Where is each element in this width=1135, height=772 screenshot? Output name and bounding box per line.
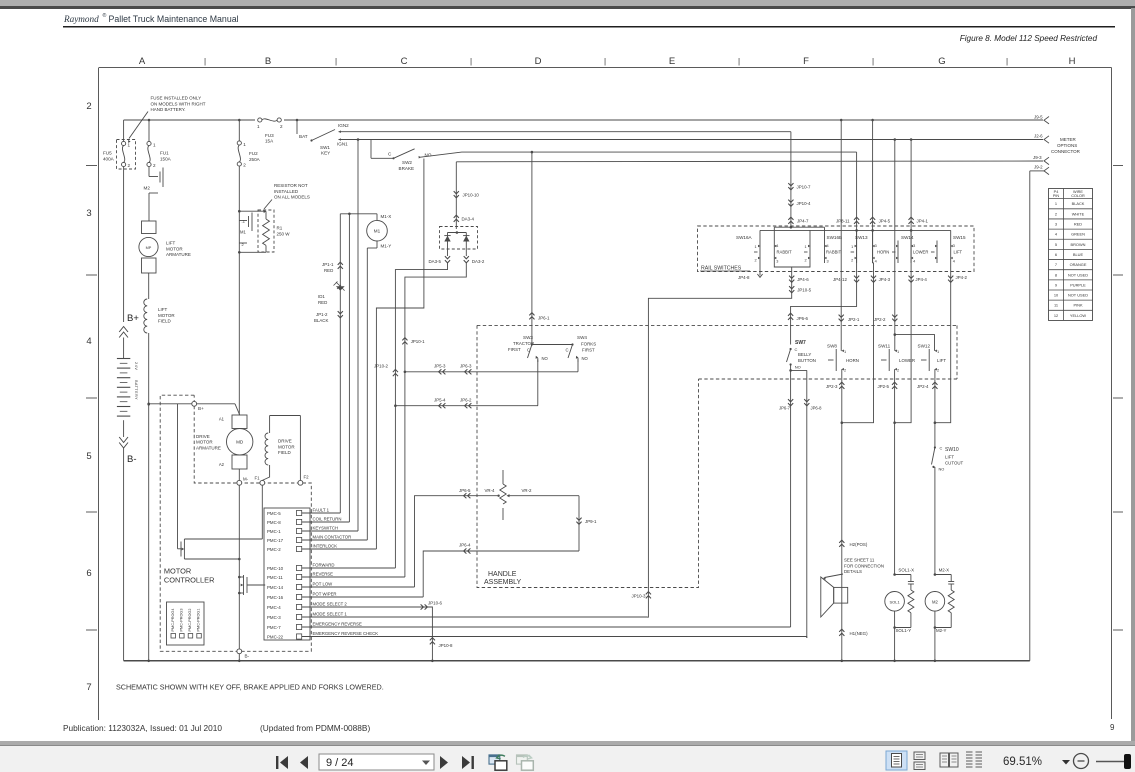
svg-text:WHITE: WHITE	[1072, 211, 1085, 216]
svg-text:TRACTOR: TRACTOR	[513, 341, 534, 346]
svg-text:JP10-4: JP10-4	[797, 201, 811, 206]
svg-text:DETAILS: DETAILS	[844, 569, 862, 574]
contact M1 main tips	[239, 213, 252, 248]
svg-text:PMC-PROG3: PMC-PROG3	[179, 609, 183, 632]
wire: brake NO to bus	[419, 151, 856, 158]
svg-text:11: 11	[1054, 303, 1058, 308]
wire: bottom negative bus	[124, 660, 1030, 662]
svg-text:12: 12	[1054, 313, 1058, 318]
svg-text:2: 2	[937, 368, 939, 373]
svg-text:PINK: PINK	[1073, 303, 1082, 308]
svg-text:6: 6	[86, 568, 91, 579]
svg-text:JP6-8: JP6-8	[811, 406, 823, 411]
svg-text:LIFT: LIFT	[954, 250, 963, 255]
svg-text:1: 1	[897, 349, 899, 354]
svg-text:7: 7	[86, 682, 91, 693]
svg-text:M2: M2	[144, 186, 151, 191]
svg-text:JP10-5: JP10-5	[797, 288, 811, 293]
switch SW10 lift cutout	[932, 446, 964, 472]
svg-text:SW8: SW8	[827, 344, 837, 349]
wire: SW7 out pair	[779, 369, 822, 638]
svg-text:RED: RED	[324, 268, 333, 273]
svg-text:JP4-2: JP4-2	[956, 275, 968, 280]
svg-text:A1: A1	[219, 417, 225, 422]
wire: SW4 NO tie	[577, 360, 579, 372]
svg-text:HANDLE: HANDLE	[488, 571, 517, 578]
switch SW7 belly button	[787, 340, 816, 370]
connector J9-5	[1034, 114, 1049, 124]
svg-text:MOTOR: MOTOR	[196, 440, 213, 445]
header title	[63, 12, 239, 24]
node B+	[119, 313, 139, 338]
svg-text:BLUE: BLUE	[1073, 252, 1084, 257]
svg-text:JP2-5: JP2-5	[878, 384, 890, 389]
svg-text:NO: NO	[582, 356, 589, 361]
svg-text:DA3-2: DA3-2	[472, 259, 485, 264]
svg-text:JP10-7: JP10-7	[797, 185, 811, 190]
transistor Q1	[178, 404, 263, 561]
svg-text:E: E	[669, 56, 675, 67]
connector J9-3	[1033, 155, 1049, 165]
svg-text:M2-Y: M2-Y	[936, 628, 947, 633]
svg-text:|: |	[604, 57, 606, 66]
svg-text:5: 5	[1055, 242, 1057, 247]
switch SW12 lift	[918, 344, 947, 373]
svg-text:FU3: FU3	[265, 133, 274, 138]
svg-text:D: D	[535, 56, 542, 67]
wire: wiper to JP9-1	[576, 496, 597, 551]
contact M2 tips	[144, 167, 164, 221]
note fuse installed only	[128, 96, 206, 144]
svg-text:PMC-4: PMC-4	[267, 605, 281, 610]
svg-text:MOTOR: MOTOR	[158, 313, 175, 318]
svg-text:2: 2	[755, 259, 757, 263]
connector J2-6	[1034, 134, 1049, 144]
svg-text:69.51%: 69.51%	[1003, 756, 1042, 768]
svg-text:|: |	[1006, 57, 1008, 66]
svg-text:YELLOW: YELLOW	[1070, 313, 1087, 318]
svg-text:Publication: 1123032A, Issued:: Publication: 1123032A, Issued: 01 Jul 20…	[63, 723, 222, 733]
svg-text:9 / 24: 9 / 24	[326, 757, 354, 769]
svg-text:SOL1: SOL1	[889, 599, 900, 604]
svg-text:2: 2	[153, 163, 156, 168]
svg-text:ASSEMBLY: ASSEMBLY	[484, 579, 522, 586]
svg-text:FORKS: FORKS	[581, 342, 596, 347]
svg-text:G: G	[938, 56, 945, 67]
svg-text:SCHEMATIC SHOWN WITH KEY OFF,: SCHEMATIC SHOWN WITH KEY OFF, BRAKE APPL…	[116, 683, 384, 692]
svg-text:JP4-5: JP4-5	[879, 219, 891, 224]
svg-text:JP2-3: JP2-3	[826, 384, 838, 389]
svg-text:6: 6	[1055, 252, 1057, 257]
wire: coil return	[302, 521, 350, 523]
svg-text:JP5-3: JP5-3	[434, 364, 446, 369]
svg-text:KEY: KEY	[321, 151, 330, 156]
svg-text:R1: R1	[277, 226, 283, 231]
svg-text:JP4-8: JP4-8	[738, 275, 750, 280]
svg-text:JP6-6: JP6-6	[797, 316, 809, 321]
svg-text:JP5-4: JP5-4	[434, 397, 446, 402]
wire: brake line down JP8-11	[836, 152, 859, 263]
wire: SOL1 to bus	[893, 611, 896, 662]
wire: IGN2 down to rail	[788, 132, 811, 228]
svg-text:4: 4	[827, 244, 829, 248]
svg-text:B+: B+	[127, 313, 139, 324]
svg-text:1: 1	[243, 142, 246, 147]
header rule	[63, 26, 1115, 28]
svg-text:B: B	[265, 56, 271, 67]
svg-text:Pallet Truck Maintenance Manua: Pallet Truck Maintenance Manual	[109, 14, 239, 24]
wire: keyswitch sense	[357, 138, 360, 531]
wire: DA3 feed from J9-3 line	[454, 162, 480, 229]
svg-text:JP4-6: JP4-6	[797, 277, 809, 282]
svg-text:Raymond: Raymond	[63, 14, 99, 24]
svg-text:JP1-1: JP1-1	[322, 262, 334, 267]
svg-text:JP6-3: JP6-3	[460, 364, 472, 369]
svg-text:C: C	[401, 56, 408, 67]
svg-text:3: 3	[875, 244, 877, 248]
node B-	[119, 437, 136, 465]
svg-text:9: 9	[1055, 282, 1057, 287]
svg-text:JP4-1: JP4-1	[917, 219, 929, 224]
svg-text:PMC-22: PMC-22	[267, 635, 284, 640]
wire: lower feed JP2-2	[874, 140, 897, 351]
svg-text:JP6-7: JP6-7	[779, 406, 791, 411]
svg-text:VR-4: VR-4	[485, 488, 496, 493]
svg-text:4: 4	[875, 260, 877, 264]
svg-text:2: 2	[243, 163, 246, 168]
svg-text:-1: -1	[242, 219, 245, 224]
svg-text:METER: METER	[1060, 137, 1077, 142]
switch SW16A rabbit	[736, 235, 792, 264]
fuse FU1	[147, 120, 172, 168]
svg-text:2: 2	[86, 101, 91, 112]
svg-text:PMC-PROG2: PMC-PROG2	[188, 609, 192, 632]
svg-text:JP10-6: JP10-6	[428, 601, 442, 606]
svg-text:A2: A2	[219, 462, 225, 467]
svg-text:BROWN: BROWN	[1071, 242, 1086, 247]
svg-text:EMERGENCY REVERSE CHECK: EMERGENCY REVERSE CHECK	[313, 631, 379, 636]
led ID1 branch	[314, 214, 345, 513]
wire: SW12 to SW10	[917, 369, 938, 446]
wire: lift feed branch	[895, 335, 935, 351]
svg-text:1: 1	[1055, 201, 1057, 206]
svg-text:J9-2: J9-2	[1034, 164, 1043, 169]
wire: battery negative rail	[123, 448, 125, 661]
svg-text:SOL1-Y: SOL1-Y	[896, 628, 912, 633]
svg-text:|: |	[872, 57, 874, 66]
potentiometer VR	[485, 470, 580, 520]
svg-text:DRIVE: DRIVE	[196, 434, 210, 439]
wire: mode select 2	[302, 601, 453, 663]
svg-text:JP10-8: JP10-8	[439, 643, 453, 648]
svg-text:SW7: SW7	[795, 340, 806, 346]
svg-text:3: 3	[827, 260, 829, 264]
switch SW4 forks first	[532, 335, 596, 362]
svg-text:M-: M-	[243, 477, 249, 482]
wire: horn feed JP2-1	[839, 120, 860, 351]
label handle assembly	[484, 571, 522, 586]
wire: reverse	[302, 576, 405, 578]
svg-text:KEYSWITCH: KEYSWITCH	[313, 526, 339, 531]
svg-text:FU5: FU5	[103, 151, 112, 156]
svg-text:DA3-5: DA3-5	[429, 259, 442, 264]
connector J9-2	[1030, 164, 1049, 174]
svg-text:PMC-10: PMC-10	[267, 566, 284, 571]
svg-text:H: H	[1069, 56, 1076, 67]
wire: right return vertical	[1029, 171, 1031, 661]
wire: DA3-2 to reverse line	[405, 263, 466, 577]
svg-text:J9-3: J9-3	[1033, 155, 1042, 160]
svg-text:PMC-2: PMC-2	[267, 547, 281, 552]
wire: main contactor drive	[366, 248, 368, 540]
inductor drive motor field	[262, 416, 300, 481]
switch SW11 lower	[878, 344, 915, 373]
svg-text:M2: M2	[932, 599, 938, 604]
svg-text:2: 2	[805, 259, 807, 263]
svg-text:BRAKE: BRAKE	[399, 166, 415, 171]
switch SW13 horn	[851, 235, 890, 264]
svg-text:DRIVE: DRIVE	[278, 439, 292, 444]
svg-text:JP10-2: JP10-2	[374, 364, 388, 369]
svg-text:F: F	[803, 56, 809, 67]
wire: JP6-4 pot wiper line	[423, 543, 579, 598]
switch SW8 horn	[827, 344, 859, 373]
svg-text:2: 2	[844, 368, 846, 373]
svg-text:C: C	[566, 348, 569, 353]
label meter options connector	[1051, 137, 1081, 154]
svg-text:4: 4	[913, 260, 915, 264]
wire: SW8 to horn circuit	[826, 369, 844, 424]
svg-text:NO: NO	[542, 356, 549, 361]
svg-text:PMC-14: PMC-14	[267, 585, 284, 590]
wire: SW14 lower out	[895, 263, 928, 423]
svg-text:NOT USED: NOT USED	[1068, 272, 1088, 277]
svg-text:150A: 150A	[160, 156, 172, 161]
svg-text:F1: F1	[255, 476, 261, 481]
svg-text:LOWER: LOWER	[899, 358, 915, 363]
svg-text:1: 1	[257, 124, 260, 129]
wire: JP5-3 speed line	[404, 364, 578, 375]
wire: forward	[302, 567, 396, 569]
connector block PMC	[264, 508, 378, 640]
node F2 controller	[298, 475, 309, 486]
node B- controller	[237, 649, 250, 659]
solenoid SOL1	[885, 568, 914, 634]
svg-text:8: 8	[1055, 272, 1057, 277]
svg-text:MODE SELECT 1: MODE SELECT 1	[313, 612, 348, 617]
wire: mode select 1	[302, 616, 648, 618]
wire: M- lead	[238, 469, 241, 662]
svg-text:SW11: SW11	[878, 344, 891, 349]
svg-text:NO: NO	[939, 467, 945, 472]
wire: battery positive top bus	[124, 119, 1043, 122]
transistor Q2	[238, 575, 265, 595]
wire: bus down JP4-5	[870, 120, 891, 263]
connector DA3-5	[429, 256, 451, 264]
svg-text:RABBIT: RABBIT	[777, 250, 793, 255]
svg-text:3: 3	[953, 244, 955, 248]
wire: SW15 lift out	[935, 263, 968, 423]
wire: FU2 to contact	[238, 166, 241, 415]
wire: main contactor	[302, 539, 368, 541]
svg-text:JP2-4: JP2-4	[917, 384, 929, 389]
svg-text:DA3-4: DA3-4	[462, 217, 475, 222]
svg-text:M1-Y: M1-Y	[381, 244, 392, 249]
schematic border frame	[99, 68, 1112, 721]
wire: DA3-5 to forward line	[395, 263, 447, 568]
svg-text:3: 3	[913, 244, 915, 248]
svg-text:CONTROLLER: CONTROLLER	[164, 576, 215, 585]
box PMC-PROG	[167, 602, 205, 645]
svg-text:LIFT: LIFT	[158, 307, 168, 312]
wire: interlock	[302, 548, 377, 550]
svg-text:BLACK: BLACK	[314, 318, 328, 323]
svg-text:ARMATURE: ARMATURE	[196, 445, 221, 450]
wire: pot wiper	[302, 596, 424, 598]
svg-text:INTERLOCK: INTERLOCK	[313, 544, 338, 549]
svg-text:VR-2: VR-2	[522, 488, 533, 493]
switch SW3 tractor first	[508, 335, 549, 362]
svg-text:POT WIPER: POT WIPER	[313, 592, 337, 597]
svg-text:RABBIT: RABBIT	[826, 250, 842, 255]
svg-text:JP2-1: JP2-1	[848, 317, 860, 322]
svg-text:ON ALL MODELS: ON ALL MODELS	[274, 195, 310, 200]
svg-text:PMC-1: PMC-1	[267, 529, 281, 534]
svg-text:B+: B+	[198, 406, 204, 411]
battery 24V stack	[117, 338, 138, 438]
node J9-3 feed line	[456, 160, 1043, 163]
wire: brake bus to SW3	[529, 152, 550, 344]
grid row ticks	[86, 166, 1123, 631]
wire: emergency reverse	[302, 626, 791, 628]
svg-text:1: 1	[805, 245, 807, 249]
svg-text:LIFT: LIFT	[937, 358, 946, 363]
wire: IGN1 line	[339, 138, 1044, 141]
svg-text:JP4-3: JP4-3	[879, 277, 891, 282]
note resistor not installed	[263, 183, 310, 213]
svg-text:15A: 15A	[265, 139, 274, 144]
svg-text:CONNECTOR: CONNECTOR	[1051, 149, 1081, 154]
svg-text:F2: F2	[304, 475, 310, 480]
svg-text:MD: MD	[236, 440, 244, 445]
svg-text:NOT USED: NOT USED	[1068, 293, 1088, 298]
svg-text:ID1: ID1	[318, 294, 325, 299]
svg-text:PURPLE: PURPLE	[1070, 282, 1086, 287]
svg-text:INSTALLED: INSTALLED	[274, 189, 299, 194]
switch SW16B rabbit	[804, 235, 842, 264]
svg-text:FOR CONNECTION: FOR CONNECTION	[844, 563, 884, 568]
svg-text:250 W: 250 W	[277, 232, 291, 237]
svg-text:J9-5: J9-5	[1034, 114, 1043, 119]
box motor controller dashed	[160, 395, 311, 651]
connector JP10-3	[632, 592, 652, 599]
grid column letters	[139, 56, 1076, 67]
wire: coil return to PMC-8	[348, 214, 350, 522]
svg-text:HORN: HORN	[877, 250, 889, 255]
svg-text:OPTIONS: OPTIONS	[1057, 143, 1077, 148]
svg-text:RESISTOR NOT: RESISTOR NOT	[274, 183, 308, 188]
svg-text:RAIL SWITCHES: RAIL SWITCHES	[701, 266, 742, 272]
svg-text:MOTOR: MOTOR	[278, 444, 295, 449]
svg-text:4: 4	[776, 244, 778, 248]
svg-text:9: 9	[1110, 723, 1115, 732]
wire: interlock from brake	[376, 159, 424, 550]
wire: JP5-4 speed line	[394, 397, 538, 408]
svg-text:JP6-5: JP6-5	[459, 488, 471, 493]
svg-text:JP10-10: JP10-10	[463, 193, 480, 198]
svg-text:SW1: SW1	[320, 145, 330, 150]
svg-text:BELLY: BELLY	[798, 352, 811, 357]
svg-text:3: 3	[1055, 222, 1057, 227]
svg-text:JP1-2: JP1-2	[316, 312, 328, 317]
svg-text:MP: MP	[146, 246, 152, 250]
wire: FU5 to battery rail	[123, 167, 125, 322]
svg-text:FU1: FU1	[160, 151, 169, 156]
svg-text:PMC-17: PMC-17	[267, 538, 284, 543]
svg-text:M1: M1	[240, 230, 246, 235]
svg-text:SW13: SW13	[855, 235, 868, 240]
svg-text:2: 2	[897, 368, 899, 373]
svg-text:GREEN: GREEN	[1071, 232, 1085, 237]
svg-text:SOL1-X: SOL1-X	[898, 568, 914, 573]
svg-text:JP9-1: JP9-1	[585, 519, 597, 524]
svg-text:REVERSE: REVERSE	[313, 572, 334, 577]
svg-text:®: ®	[103, 12, 107, 19]
wire: rail internal bus	[760, 226, 951, 241]
svg-text:M1: M1	[374, 229, 381, 234]
svg-text:Figure 8. Model 112 Speed Res: Figure 8. Model 112 Speed Restricted	[960, 34, 1098, 43]
svg-text:JP4-7: JP4-7	[797, 219, 809, 224]
svg-text:|: |	[204, 57, 206, 66]
toolbar icons svg	[0, 746, 1135, 772]
svg-text:4: 4	[86, 336, 91, 347]
svg-text:JP6-4: JP6-4	[459, 543, 471, 548]
svg-text:C: C	[388, 152, 392, 157]
svg-text:JP4-4: JP4-4	[915, 277, 927, 282]
svg-text:4: 4	[953, 260, 955, 264]
svg-text:SW10: SW10	[945, 447, 959, 453]
svg-text:SW16B: SW16B	[827, 235, 843, 240]
svg-text:RED: RED	[318, 300, 327, 305]
switch SW2 brake	[371, 140, 432, 171]
connector JP4-8	[738, 263, 763, 280]
svg-text:5: 5	[86, 451, 91, 462]
node B+ controller	[147, 401, 239, 414]
svg-text:SW16A: SW16A	[736, 235, 753, 240]
coil M1 contactor	[340, 213, 391, 249]
svg-text:SW15: SW15	[953, 235, 966, 240]
box handle switches dashed	[477, 325, 957, 379]
svg-text:FIELD: FIELD	[158, 319, 172, 324]
svg-text:SW2: SW2	[402, 160, 412, 165]
speaker horn symbol	[821, 577, 848, 617]
svg-text:FIRST: FIRST	[508, 347, 521, 352]
svg-text:2: 2	[280, 124, 283, 129]
wire: IGN2 line	[339, 131, 791, 133]
svg-text:PMC-PROG4: PMC-PROG4	[171, 609, 175, 632]
svg-text:MOTOR: MOTOR	[164, 567, 191, 576]
note see sheet 11	[823, 558, 884, 580]
svg-text:C: C	[940, 446, 943, 451]
switch SW14 lower	[892, 235, 928, 264]
svg-text:FAULT 1: FAULT 1	[313, 508, 330, 513]
svg-text:FORWARD: FORWARD	[313, 563, 335, 568]
svg-text:ORANGE: ORANGE	[1070, 262, 1087, 267]
svg-text:3: 3	[86, 208, 91, 219]
svg-text:PIN: PIN	[1053, 194, 1060, 198]
svg-text:SW4: SW4	[577, 335, 587, 340]
svg-text:NO: NO	[795, 365, 801, 370]
